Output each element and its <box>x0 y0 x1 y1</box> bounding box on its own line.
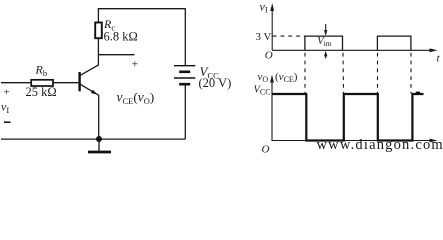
wire top rail <box>98 8 186 10</box>
resistor Rc <box>95 23 102 39</box>
dashed 3V level line <box>273 35 305 37</box>
transistor Q1 base bar <box>78 72 80 91</box>
top plot x-axis <box>272 49 433 51</box>
wire output stub <box>98 54 135 56</box>
vI waveform pulse 2 <box>377 36 411 50</box>
dashed connector line 3 <box>377 53 379 94</box>
bottom plot x-axis <box>272 140 434 142</box>
battery VCC plate long 1 <box>174 65 195 67</box>
dashed connector line 2 <box>342 53 345 94</box>
bottom plot y-axis <box>271 79 273 141</box>
ground bar <box>88 151 111 154</box>
top plot x-axis arrowhead <box>430 48 438 52</box>
svg-text:25 kΩ: 25 kΩ <box>26 85 57 99</box>
wire battery top lead <box>184 8 186 65</box>
battery VCC plate short 1 <box>179 71 190 74</box>
resistor Rb <box>31 80 53 86</box>
wire battery bottom lead <box>184 85 186 139</box>
transistor Q1 emitter arrowhead <box>91 90 97 95</box>
svg-text:O: O <box>265 50 273 62</box>
wire base lead <box>53 82 78 84</box>
svg-text:(20 V): (20 V) <box>199 76 232 90</box>
bottom plot x-axis arrowhead <box>430 139 438 143</box>
ground stub <box>98 139 100 152</box>
svg-text:www.diangon.com: www.diangon.com <box>317 137 443 153</box>
wire Rc top lead <box>97 8 99 22</box>
label input minus <box>4 121 11 123</box>
svg-text:+: + <box>132 57 139 71</box>
wire input lead <box>1 82 31 84</box>
svg-text:+: + <box>4 87 10 99</box>
svg-text:3 V: 3 V <box>256 31 272 43</box>
wire bottom rail <box>1 138 185 140</box>
vI waveform pulse 1 <box>305 36 343 50</box>
waveform end tick <box>416 91 420 93</box>
svg-text:6.8 kΩ: 6.8 kΩ <box>104 30 138 44</box>
wire emitter lead <box>98 95 100 139</box>
vO waveform <box>272 94 424 141</box>
dashed connector line 1 <box>304 53 306 94</box>
top plot y-axis <box>271 8 273 50</box>
dashed connector line 4 <box>410 53 412 94</box>
transistor Q1 emitter diagonal <box>80 84 99 95</box>
dimension up arrow Vim <box>325 55 327 59</box>
dimension down arrow Vim <box>325 24 327 31</box>
bottom plot y-axis arrowhead <box>270 75 274 83</box>
wire Rc bottom lead / collector <box>97 38 99 65</box>
battery VCC plate short 2 <box>179 83 190 86</box>
top plot y-axis arrowhead <box>270 3 274 11</box>
svg-text:O: O <box>262 144 270 156</box>
battery VCC plate long 2 <box>174 77 195 79</box>
junction dot <box>96 136 102 142</box>
transistor Q1 collector diagonal <box>80 65 98 76</box>
